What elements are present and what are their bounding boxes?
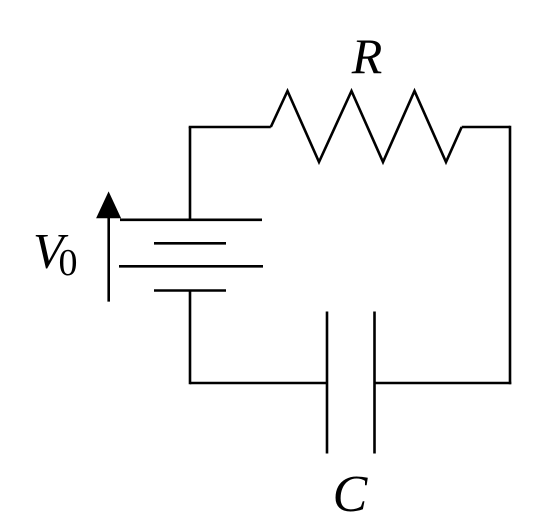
svg-text:R: R	[351, 28, 383, 84]
capacitor C right plate	[373, 312, 376, 454]
battery V0 bottom short plate	[154, 289, 226, 292]
battery V0 upper short plate	[154, 242, 226, 245]
arrowhead for V0	[96, 191, 121, 218]
capacitor C left plate	[326, 312, 329, 454]
wire: top-right horizontal segment	[462, 126, 510, 129]
resistor R	[271, 91, 462, 162]
svg-text:0: 0	[59, 242, 78, 284]
wire: top-left horizontal segment	[189, 126, 271, 129]
wire: bottom-left horizontal segment	[190, 382, 327, 385]
arrow shaft for V0	[107, 214, 110, 302]
wire: bottom-right horizontal segment	[375, 382, 512, 385]
wire: left vertical segment above battery	[189, 127, 192, 220]
wire: left vertical segment below battery	[189, 291, 192, 385]
battery V0 lower long plate	[119, 265, 263, 268]
svg-text:C: C	[333, 466, 369, 523]
battery V0 top long plate	[120, 219, 262, 222]
wire: right vertical segment	[509, 126, 512, 385]
